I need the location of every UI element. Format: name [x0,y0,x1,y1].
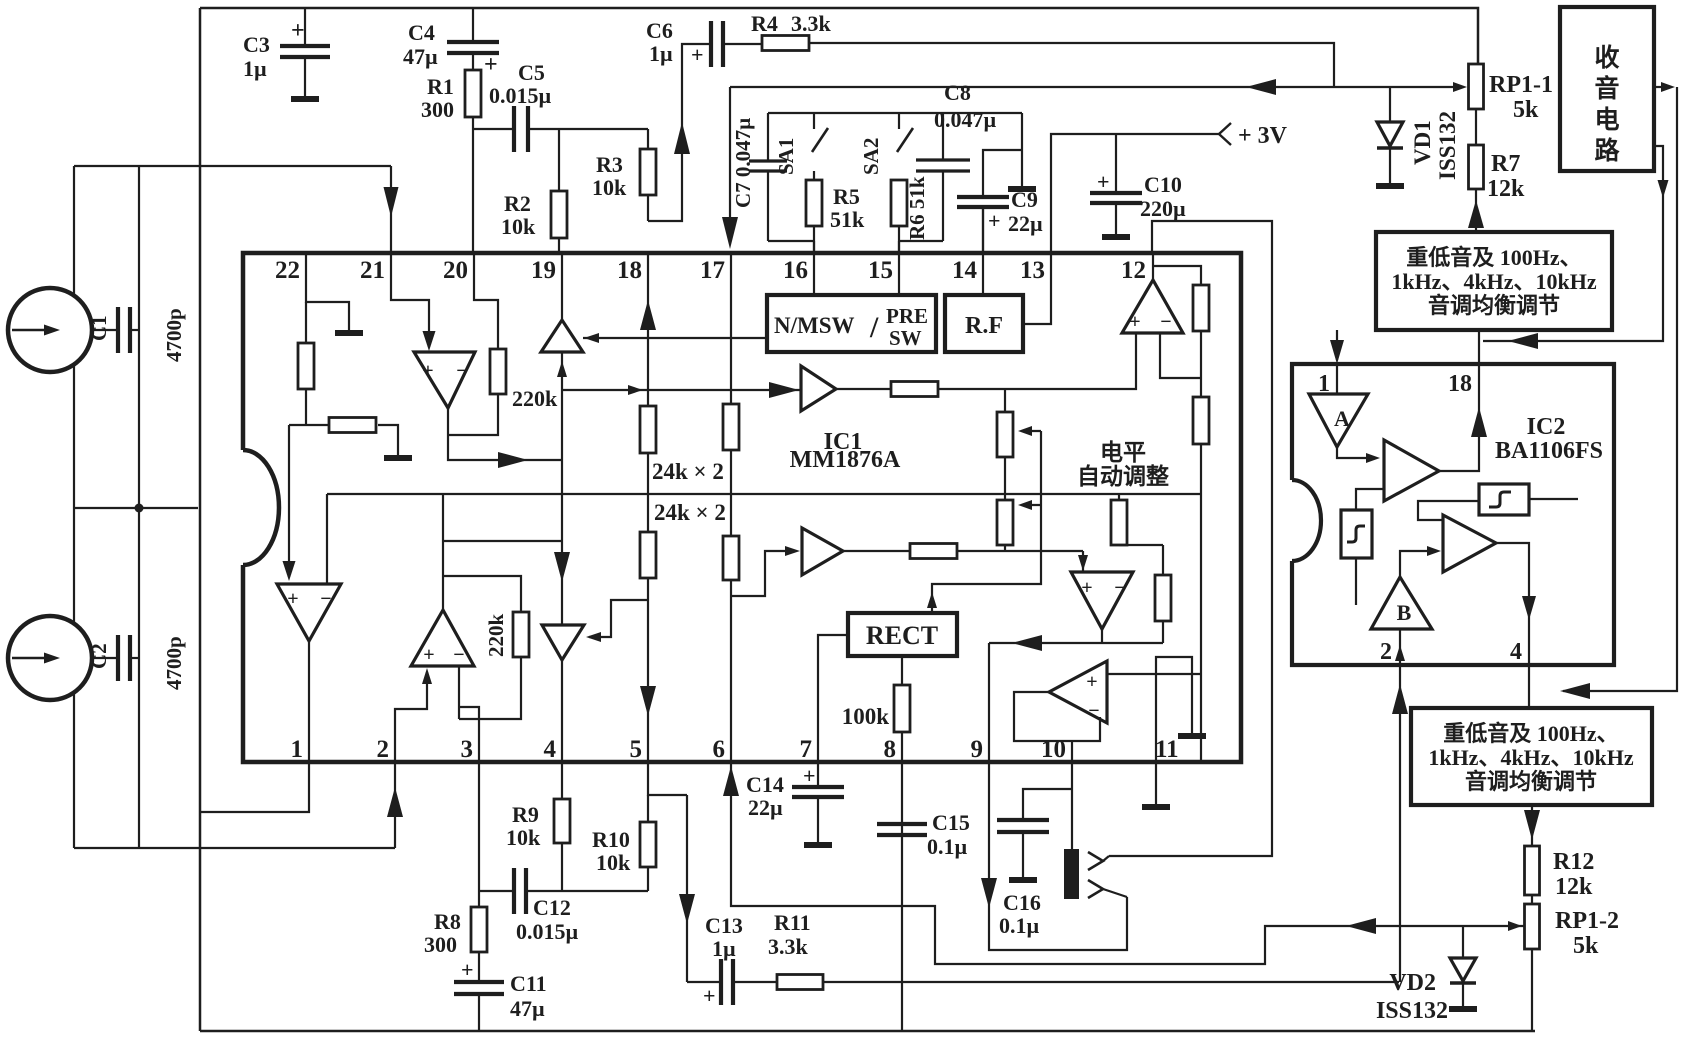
ground below pin 11 [1142,804,1170,810]
flow arrow down inside pin 4 [1522,596,1536,620]
svg-text:12: 12 [1121,257,1146,284]
svg-text:220k: 220k [512,386,558,411]
ground below internal resistor [384,455,412,461]
svg-text:0.1µ: 0.1µ [999,913,1040,938]
svg-text:22µ: 22µ [748,795,783,820]
flow arrow into T3 [769,382,799,398]
capacitor C6 [648,44,711,221]
wire jog to buffer T8 [731,551,787,596]
svg-text:24k × 2: 24k × 2 [652,459,724,484]
wire C13 feed column [686,795,688,982]
resistor 100k [894,685,910,732]
svg-text:C7 0.047µ: C7 0.047µ [731,118,755,208]
wire right margin outer [1563,87,1677,691]
flow arrow into T1 [423,331,436,351]
svg-text:+: + [1081,577,1092,599]
resistor R5 [813,171,815,180]
amp A [1309,394,1368,447]
svg-text:7: 7 [800,736,813,763]
svg-text:C11: C11 [510,971,547,996]
svg-text:4700p: 4700p [162,636,186,690]
svg-text:+: + [803,763,816,788]
arrow into T6 plus [422,668,432,684]
ground internal pin 11 [1178,733,1206,739]
wire C16 jog [1023,789,1072,820]
svg-text:1µ: 1µ [712,936,736,961]
IC1 MM1876A box outline [243,253,1241,762]
svg-text:R12: R12 [1553,849,1594,875]
wire pin 11 internal ground [1156,657,1192,762]
wire jack lower to pin9 line [1103,889,1127,897]
wire wiper column [1040,431,1042,551]
resistor R9 [554,799,570,843]
diode VD2 [1462,926,1464,958]
terminal +3V [1219,123,1231,145]
buffer T2 at pin 19 [561,253,563,320]
arrow into RP1-2 wiper [1508,921,1522,931]
svg-text:R.F: R.F [965,313,1003,339]
svg-text:VD1: VD1 [1410,120,1435,165]
box tone EQ lower [1411,708,1652,805]
flow arrow down pin 5 [640,686,656,716]
flow arrow left on T9 output [1012,635,1042,651]
potentiometer RP1-1 [1469,64,1484,109]
flow arrow down into pin 1 [1330,340,1344,364]
svg-text:C15: C15 [932,810,970,835]
wire pin 2 below [394,762,396,848]
wire T1 output to pin19 column [448,408,562,460]
svg-text:C4: C4 [408,20,435,45]
svg-text:220k: 220k [484,614,508,658]
wire R.F to pin 13 [1023,253,1051,324]
wire tri1 output to pin 18 [1439,364,1479,471]
resistor 220k channel2 [513,612,529,657]
wire source2 bottom [73,692,75,848]
svg-text:MM1876A: MM1876A [790,447,901,473]
resistor R1 [472,53,474,70]
svg-text:1µ: 1µ [243,56,267,81]
svg-text:300: 300 [421,97,454,122]
svg-text:11: 11 [1155,736,1179,763]
svg-text:6: 6 [713,736,726,763]
svg-text:重低音及 100Hz、: 重低音及 100Hz、 [1406,245,1581,270]
arrow into tri1 [1366,453,1380,463]
arrow into T7 [586,632,601,642]
svg-text:17: 17 [700,257,725,284]
svg-text:+: + [422,360,433,382]
svg-text:R9: R9 [512,802,539,827]
svg-text:−: − [1088,700,1099,722]
wire RP1-1 wiper to pin 17 [730,86,1455,88]
svg-text:A: A [1334,406,1350,431]
wire between 24k pair [647,453,649,532]
svg-text:重低音及 100Hz、: 重低音及 100Hz、 [1443,721,1618,746]
svg-text:0.047µ: 0.047µ [934,107,997,132]
svg-text:0.1µ: 0.1µ [927,834,968,859]
svg-text:47µ: 47µ [510,996,545,1021]
wire pin 18 column [647,253,649,406]
svg-text:R4: R4 [751,11,778,36]
svg-text:−: − [453,644,464,666]
svg-text:C10: C10 [1144,172,1182,197]
svg-text:5k: 5k [1513,97,1539,123]
wire T7 to pin 4 [561,660,563,762]
svg-text:22: 22 [275,257,300,284]
flow arrow down pin 21 [384,187,399,217]
svg-text:C14: C14 [746,772,784,797]
svg-text:R1: R1 [427,74,454,99]
wire left border [199,8,202,1031]
svg-text:22µ: 22µ [1008,211,1043,236]
wire pin 20 to 220k [474,253,498,349]
resistor R12 [1525,846,1540,895]
resistor level adj 2 [1193,397,1209,444]
svg-text:BA1106FS: BA1106FS [1495,438,1603,464]
earphone jack contact [1064,849,1079,899]
capacitor C8 [942,113,944,159]
svg-text:4: 4 [1510,639,1522,665]
wiper arrow upper [1022,430,1041,432]
svg-text:−: − [456,360,467,382]
wire S1 output [1529,498,1578,500]
svg-text:24k × 2: 24k × 2 [654,500,726,525]
wire T10 loop to pin 10 [1071,741,1073,762]
svg-text:+: + [287,588,298,610]
ground below VD1 [1376,183,1404,189]
junction dot [135,504,144,513]
capacitor C10 [1115,134,1117,192]
svg-text:RP1-1: RP1-1 [1489,72,1553,98]
wire B to tri2 [1400,551,1429,577]
box radio circuit 收音电路 [1560,7,1654,171]
svg-text:SA1: SA1 [774,138,798,175]
amp tri2 [1443,515,1496,572]
svg-text:+: + [291,18,305,44]
wire RP1-2 bottom to border [1531,949,1533,1031]
wire source1 bottom [73,364,75,508]
svg-text:10k: 10k [506,825,541,850]
flow arrow left on wiper line [1346,918,1376,934]
capacitor C7 [767,113,769,160]
wire 220k bottom to T1 output [448,394,498,435]
resistor R2 [558,129,560,191]
wire T8 output [843,550,910,552]
wire N/MSW to T2 [583,337,767,339]
limiter box S2 [1341,510,1372,558]
wire pin 9 below to jack [989,762,1127,950]
wire group rail [768,112,1022,114]
svg-text:100k: 100k [842,704,890,729]
box N/MSW PRE SW [767,295,936,352]
svg-text:音: 音 [1594,74,1619,103]
wire pin 1 into A [1336,364,1338,394]
ground below C10 [1102,234,1130,240]
svg-text:C3: C3 [243,32,270,57]
amp tri1 [1384,440,1439,501]
resistor internal horizontal [289,424,329,426]
flow arrow up pin 18 inside [1471,407,1487,437]
arrow into tri2 [1427,546,1441,556]
wire T6 apex to rail [442,494,444,610]
capacitor C11 [478,952,480,981]
capacitor C15 [877,822,927,826]
wire radio upper output [1654,86,1663,88]
svg-text:IC2: IC2 [1527,414,1566,440]
wire T4 minus loop [1160,333,1201,378]
svg-text:R3: R3 [596,152,623,177]
resistor below rail [1118,494,1120,500]
flow arrow left into pin18 column [1508,333,1538,349]
svg-text:路: 路 [1594,137,1620,165]
capacitor C5 [473,128,514,130]
wire pin 11 below [1155,762,1157,804]
jack chevron lower [1088,880,1103,898]
wire EQ to IC2 pin 1 [1336,330,1338,360]
capacitor C3 [304,8,306,45]
svg-text:10k: 10k [501,214,536,239]
svg-text:20: 20 [443,257,468,284]
svg-text:/: / [869,311,879,344]
svg-text:自动调整: 自动调整 [1077,463,1169,489]
flow arrow up into R7 [1468,200,1484,228]
resistor 220k channel1 [490,349,506,394]
flow arrow up into C6 [674,122,690,154]
wire EQ to IC2 pin 18 [1478,330,1480,364]
wire S2 top [1356,489,1384,510]
svg-text:3: 3 [461,736,474,763]
arrow into RECT [927,592,937,608]
wire source1 top [73,166,75,296]
svg-text:C16: C16 [1003,890,1041,915]
wire T9 side resistor jog [1119,544,1163,546]
svg-text:19: 19 [531,257,556,284]
resistor 24k b1 [723,404,739,450]
flow arrow up pin 6 [723,766,739,796]
wire pin 16 into N/MSW [813,241,815,295]
svg-text:R7: R7 [1491,151,1520,177]
wire 24k b2 down pin 6 [730,580,732,762]
svg-text:SA2: SA2 [859,138,883,175]
svg-text:RP1-2: RP1-2 [1555,908,1619,934]
potentiometer RP1-2 [1531,895,1533,904]
capacitor C14 [817,762,819,786]
wire T9 output line [989,642,1163,644]
op-amp T10 [1049,661,1107,723]
variable resistor upper [1004,389,1006,412]
svg-text:1kHz、4kHz、10kHz: 1kHz、4kHz、10kHz [1391,269,1597,294]
svg-text:R2: R2 [504,191,531,216]
ground below C16 [1009,877,1037,883]
ground below C3 [291,96,319,102]
svg-text:C12: C12 [533,895,571,920]
svg-text:4: 4 [544,736,557,763]
switch SA1 [813,113,815,129]
flow arrow into channel2 op-amp [283,561,296,581]
RECT box [848,613,957,656]
wire jack upper to pin12 line [1103,856,1109,861]
svg-text:音调均衡调节: 音调均衡调节 [1465,769,1597,794]
svg-text:N/MSW: N/MSW [774,313,855,338]
svg-text:47µ: 47µ [403,44,438,69]
wire below T2 [561,352,563,460]
wire source rail top [74,165,391,167]
flow arrow up pin 2 [387,787,403,817]
flow arrow down into R12 [1524,810,1540,840]
capacitor C1 4700p [92,329,118,331]
svg-text:C1: C1 [87,315,111,341]
wire 24k a2 down pin 5 [647,578,649,762]
svg-text:14: 14 [952,257,978,284]
svg-text:16: 16 [783,257,808,284]
signal source C1 circle [8,288,92,372]
wire pin 17 column internal [730,253,732,404]
svg-text:1kHz、4kHz、10kHz: 1kHz、4kHz、10kHz [1428,745,1634,770]
diode VD1 [1389,87,1391,122]
svg-text:R5: R5 [833,184,860,209]
svg-text:C6: C6 [646,18,673,43]
resistor R8 [471,907,487,952]
wire bottom source rail [74,847,395,849]
resistor 24k a1 [640,406,656,453]
svg-text:13: 13 [1020,257,1045,284]
wire pin 2 to T6 plus [395,672,427,762]
wire RP1-1 to R7 [1475,109,1477,145]
wire EQ lower to R12 [1531,805,1533,846]
wire C1 node column [138,166,140,508]
IC2 notch [1292,480,1321,561]
wire T3 output [836,388,891,390]
svg-text:+: + [1129,311,1140,333]
svg-text:R10: R10 [592,827,630,852]
resistor 24k a2 [640,532,656,578]
wire T3 resistor to T4 [938,333,1136,389]
wire T10 plus to level column [1107,673,1201,675]
wire pin 3 below [478,762,480,907]
wire group right drop [1021,113,1023,186]
resistor 24k b2 [723,536,739,580]
wire S1 input step [1418,501,1479,520]
wire C12 row [479,890,514,892]
resistor R11 3.3k [733,981,777,983]
wire pin 2 below IC2 [1399,665,1401,982]
svg-text:音调均衡调节: 音调均衡调节 [1428,293,1560,318]
jack chevron upper [1088,852,1103,870]
wiper arrow lower [1022,504,1041,506]
wire C2 node column [138,508,140,848]
wire T4 apex to pin 12 [1152,253,1154,280]
wire pin 4 below to R9 [561,762,563,799]
arrow up inside pin 2 [1395,645,1405,661]
wire top border [200,8,1478,64]
wire pin 4 below IC2 [1528,665,1530,708]
resistor T8 output [910,544,957,559]
wire rail drop to T5 minus [326,494,328,584]
svg-text:SW: SW [889,326,922,350]
wire pin 8 below [901,762,903,1031]
flow arrow left to IC2 pin4 [1560,683,1590,699]
svg-text:220µ: 220µ [1140,196,1186,221]
wire RECT bottom [901,656,903,685]
svg-text:+: + [1097,169,1110,194]
svg-text:300: 300 [424,932,457,957]
svg-text:10k: 10k [596,850,631,875]
op-amp T9 [1071,572,1133,629]
flow arrow right on T1 output [498,452,528,468]
wire pin 15 into N/MSW [898,241,900,295]
IC1 notch [243,450,279,565]
resistor R10 [647,795,649,822]
wire pin 6 below zigzag to RP1-2 [731,762,1524,964]
svg-text:VD2: VD2 [1389,970,1436,996]
wire radio lower output [1483,146,1663,341]
svg-text:+: + [1086,671,1097,693]
svg-text:+: + [703,983,716,1008]
wire level column lower [1200,494,1202,762]
svg-text:3.3k: 3.3k [768,934,809,959]
wire bottom border [200,1030,1535,1033]
svg-text:ISS132: ISS132 [1435,111,1460,180]
wire level column to rail [1200,444,1202,494]
svg-text:C2: C2 [87,643,111,669]
wire T6 minus to pin 3 [458,666,460,719]
wire 220k2 loop [459,657,521,719]
wire A output [1337,447,1368,458]
op-amp T6 [411,610,474,666]
flow arrow up below pin 2 [1392,684,1408,714]
wire tri2 output to pin 4 [1496,543,1529,665]
wire pin 17 drop [729,87,731,243]
wire between level resistors [1200,331,1202,397]
flow arrow up below T2 [557,361,567,377]
wire pin 22 to internal ground [306,253,349,330]
arrow into T9 [1078,555,1088,571]
wire to op-amp channel2 input [288,425,290,577]
flow arrow down into pin 17 [722,217,738,249]
wire pin 12 bypass to jack [1109,221,1272,856]
resistor R3 [647,129,649,149]
wire group bottom left [768,240,814,242]
svg-text:18: 18 [617,257,642,284]
wire RECT left to pin 7 [818,635,848,762]
wire internal rail [327,493,1201,495]
svg-text:收: 收 [1594,44,1619,72]
wire mid rail to border [74,507,198,509]
svg-text:3.3k: 3.3k [791,11,832,36]
resistor R4 3.3k [762,36,809,51]
ground below VD2 [1449,1006,1477,1012]
svg-text:+: + [988,208,1001,233]
wire pin4 column upper [561,460,563,625]
svg-text:1µ: 1µ [649,41,673,66]
amp B [1371,577,1432,629]
flow arrow down C13 feed [679,894,695,924]
svg-text:9: 9 [971,736,984,763]
svg-text:C9: C9 [1011,187,1038,212]
svg-text:−: − [320,588,331,610]
wire T6 apex link to pin4 column [443,540,562,542]
svg-text:−: − [1160,311,1171,333]
svg-text:R6 51k: R6 51k [905,176,929,240]
wire source2 top [73,508,75,624]
svg-text:0.015µ: 0.015µ [516,919,579,944]
resistor T3 output [891,382,938,397]
wire T5 output to pin 1 and border [200,641,309,812]
svg-text:B: B [1397,600,1412,625]
svg-text:C5: C5 [518,60,545,85]
flow arrow down to T7 [554,552,570,582]
svg-text:PRE: PRE [886,304,928,328]
svg-text:R8: R8 [434,909,461,934]
